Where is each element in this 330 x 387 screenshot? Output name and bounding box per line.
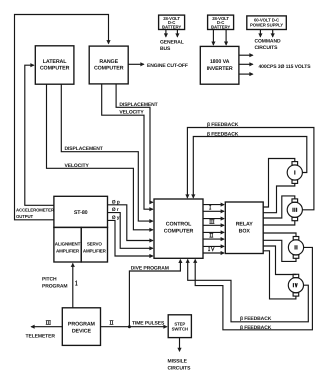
svg-text:STEP: STEP [174,321,185,326]
svg-text:SWITCH: SWITCH [172,327,188,332]
wire: relay box to actuator IV top [263,246,296,275]
step switch box [168,315,191,338]
wire: battery B2 to inverter (2 arrows) [212,30,214,45]
control computer box [154,199,203,258]
relay box [225,202,263,254]
ST-80 platform box [54,196,108,227]
wire: pitch program to alignment amplifier [72,264,74,308]
wire: control computer to relay box channel IV (2 lines) [203,245,224,247]
svg-text:DISPLACEMENT: DISPLACEMENT [119,102,157,108]
svg-text:BUS: BUS [160,46,171,52]
label: channel III [209,220,214,224]
wire: relay box to actuator III bottom [263,221,295,225]
lateral computer box [35,46,74,84]
battery B1 box [159,15,185,29]
wire: range displacement to control computer [116,84,153,202]
wire: program device to step switch (time pulses) [101,326,167,328]
wire: range velocity to control computer [102,84,153,209]
svg-text:VELOCITY: VELOCITY [119,110,144,116]
wire: range computer to engine cut-off [128,63,144,65]
wire: control computer to relay box channel II (2 lines) [203,231,224,233]
svg-text:β FEEDBACK: β FEEDBACK [240,316,272,322]
svg-text:INVERTER: INVERTER [207,66,233,72]
wire: step switch to missile circuits [179,338,181,352]
svg-text:POWER SUPPLY: POWER SUPPLY [250,22,283,27]
wire: phi-p to control computer [108,205,153,241]
alignment amplifier box [54,227,81,262]
program device box [62,308,100,346]
wire: actuator I beta feedback to control computer top [193,137,306,198]
label: III [46,321,51,325]
battery B2 box [208,15,234,29]
inverter box [200,46,239,84]
wire: relay box to actuator II bottom [263,240,296,261]
svg-text:COMPUTER: COMPUTER [40,66,70,72]
wire: actuator IV beta feedback to control computer bottom [188,260,309,322]
jet vane actuator IV [288,274,303,296]
label: channel I [209,205,211,209]
svg-text:β FEEDBACK: β FEEDBACK [207,122,239,128]
wire: ST-80 output to range computer (top route) [15,15,109,220]
svg-text:BATTERY: BATTERY [162,24,181,29]
wire: relay box to actuator I top [263,159,295,208]
jet vane actuator I [287,162,302,184]
60-volt power supply box [247,16,286,30]
svg-text:COMPUTER: COMPUTER [164,228,194,234]
wire: lateral displacement to control computer [61,84,153,221]
jet vane actuator II [288,237,303,259]
svg-text:PROGRAM: PROGRAM [68,322,96,328]
svg-text:1800 VA: 1800 VA [210,59,230,65]
wire: relay box to actuator IV bottom [263,251,296,299]
wire: actuator III beta feedback to control computer top [187,128,314,210]
svg-text:Ø p: Ø p [112,199,120,205]
svg-text:AMPLIFIER: AMPLIFIER [83,249,107,254]
wire: lateral velocity to control computer [47,84,153,230]
svg-text:PITCH: PITCH [42,277,57,283]
wire: program device to telemeter [31,326,62,328]
svg-text:CIRCUITS: CIRCUITS [168,366,192,372]
svg-text:OUTPUT: OUTPUT [16,214,34,219]
svg-text:β FEEDBACK: β FEEDBACK [207,131,239,137]
jet vane actuator III [287,199,302,221]
label: II [110,321,114,325]
svg-text:Ø y: Ø y [112,215,120,221]
wire: inverter 400cps outputs (3 arrows) [239,54,253,56]
wire: relay box to actuator III top [263,196,295,218]
wire: dive program to control computer [129,260,180,327]
svg-text:DEVICE: DEVICE [72,328,92,334]
range computer box [89,46,128,84]
label: channel IV [208,247,214,251]
svg-text:DISPLACEMENT: DISPLACEMENT [65,146,103,152]
svg-text:COMPUTER: COMPUTER [94,66,124,72]
svg-text:COMMAND: COMMAND [255,39,281,45]
svg-text:TELEMETER: TELEMETER [26,333,56,339]
junction: time pulses / dive program [128,325,131,328]
svg-text:AMPLIFIER: AMPLIFIER [56,249,80,254]
svg-text:Ø r: Ø r [112,207,119,213]
svg-text:RANGE: RANGE [99,59,118,65]
svg-text:ACCELEROMETER: ACCELEROMETER [16,208,55,213]
wire: phi-r to control computer [108,213,153,249]
wire: phi-y to control computer [108,220,153,256]
svg-text:BATTERY: BATTERY [211,24,230,29]
svg-text:DIVE PROGRAM: DIVE PROGRAM [131,266,169,272]
svg-text:MISSILE: MISSILE [168,359,188,365]
svg-text:ST-80: ST-80 [74,210,88,216]
servo amplifier box [81,227,107,262]
svg-text:CIRCUITS: CIRCUITS [255,45,279,51]
wire: relay box to actuator II top [263,233,296,237]
label: pitch program 1 [75,281,77,285]
svg-text:LATERAL: LATERAL [43,59,67,65]
wire: control computer to relay box channel III (2 lines) [203,218,224,220]
svg-text:PROGRAM: PROGRAM [42,284,67,290]
svg-text:β FEEDBACK: β FEEDBACK [240,325,272,331]
svg-text:SERVO: SERVO [87,241,103,246]
svg-text:TIME PULSES: TIME PULSES [132,320,165,326]
wire: relay box to actuator I bottom [263,183,295,212]
svg-text:ALIGNMENT: ALIGNMENT [55,241,81,246]
svg-text:400CPS 3Ø 115 VOLTS: 400CPS 3Ø 115 VOLTS [259,64,312,70]
wire: control computer to relay box channel I (2 lines) [203,204,224,206]
wire: actuator II beta feedback to control computer bottom [195,247,312,329]
wire: battery B1 to general bus (2 arrows) [165,30,167,37]
svg-text:BOX: BOX [239,228,251,234]
svg-text:RELAY: RELAY [236,222,254,228]
wire: ST-80 accelerometer output to lateral computer [25,65,54,205]
label: channel II [209,233,213,237]
svg-text:VELOCITY: VELOCITY [65,163,90,169]
wire: power supply to command circuits (2 arrows) [259,30,261,37]
svg-text:ENGINE CUT-OFF: ENGINE CUT-OFF [147,63,188,69]
svg-text:GENERAL: GENERAL [160,40,184,46]
svg-text:CONTROL: CONTROL [166,222,192,228]
